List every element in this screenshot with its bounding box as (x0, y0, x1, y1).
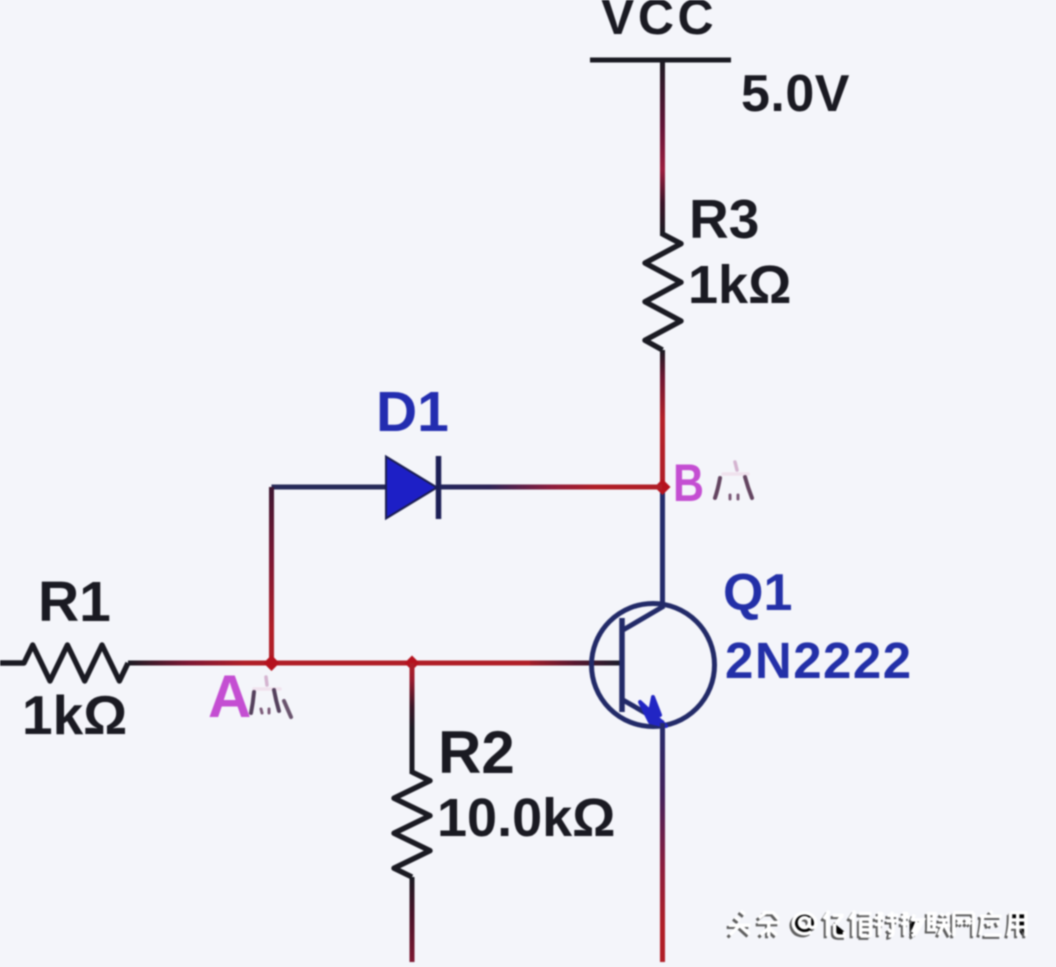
watermark toutiao (729, 911, 1026, 936)
svg-text:VCC: VCC (601, 0, 717, 45)
svg-text:R1: R1 (38, 570, 111, 634)
node R2 junction dot (405, 656, 420, 671)
wire R2 to bottom edge (410, 877, 415, 962)
transistor Q1 circle (592, 604, 715, 727)
wm char lian (927, 913, 950, 936)
wm char ying (980, 911, 1002, 935)
wire diode cathode to node B (440, 485, 662, 490)
svg-text:R3: R3 (689, 188, 759, 250)
wire R1 to node A (transition) (128, 661, 245, 666)
node A chinese dian (faded) (251, 677, 291, 717)
diode D1 cathode bar (436, 456, 442, 519)
node B chinese dian (faded) (715, 462, 752, 499)
wm char yong (1008, 913, 1026, 936)
wire node to R2 (410, 663, 415, 774)
wire node A up to diode (269, 487, 274, 663)
svg-text:1kΩ: 1kΩ (22, 684, 127, 746)
wm char bai (850, 911, 872, 936)
wire diode anode (272, 485, 387, 490)
svg-text:D1: D1 (376, 380, 449, 444)
wire VCC to R3 (660, 60, 665, 236)
transistor Q1 emitter arrow (640, 697, 666, 726)
wm at sign (793, 913, 815, 934)
wire junction to transistor base (530, 661, 620, 666)
node A junction dot (264, 655, 280, 671)
svg-text:1kΩ: 1kΩ (688, 255, 791, 315)
transistor Q1 collector lead (623, 606, 664, 630)
wire node B to collector (660, 487, 665, 607)
power symbol VCC bar (590, 58, 731, 63)
svg-text:B: B (673, 454, 704, 513)
wm char te (875, 912, 898, 936)
wm char yi (824, 911, 845, 936)
node B junction dot (655, 479, 671, 495)
wm char tiao (758, 912, 780, 936)
diode D1 (386, 457, 437, 519)
wire node A to base junction (red) (245, 661, 530, 666)
resistor R3 (645, 234, 681, 350)
svg-text:A: A (208, 663, 251, 730)
svg-text:Q1: Q1 (723, 564, 792, 622)
transistor Q1 base bar (619, 618, 625, 712)
resistor R2 (394, 772, 430, 877)
svg-text:R2: R2 (438, 719, 515, 786)
wm char wu (901, 912, 924, 936)
svg-text:2N2222: 2N2222 (725, 632, 913, 689)
wm char tou (729, 911, 751, 935)
wire emitter to bottom edge (660, 723, 665, 962)
svg-text:5.0V: 5.0V (741, 65, 850, 123)
transistor Q1 emitter lead (623, 700, 663, 723)
wm char wang (954, 913, 974, 936)
wire R3 to node B (660, 350, 665, 487)
resistor R1 (0, 645, 128, 681)
svg-text:10.0kΩ: 10.0kΩ (437, 788, 615, 848)
